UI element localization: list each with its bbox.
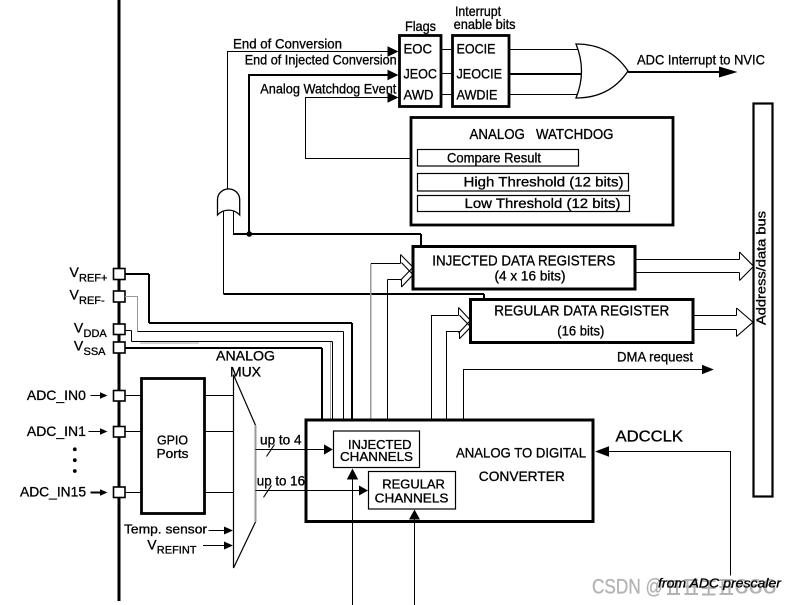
node: open block arrow regular register to bus (head) (737, 308, 754, 337)
wire: injected channels to injected data registers (black) (387, 280, 389, 431)
node: open block arrow injected registers to bus (shaft) (635, 252, 740, 281)
node: injected trigger arrowhead (347, 469, 358, 480)
wire: VREF- supply (gray stub) (125, 297, 138, 332)
svg-text:V: V (147, 537, 157, 553)
block: ANALOG WATCHDOG box (411, 118, 673, 226)
svg-text:End of Injected Conversion: End of Injected Conversion (245, 52, 397, 68)
svg-text:CHANNELS: CHANNELS (340, 449, 413, 464)
node: open arrowheads into regular data register (459, 308, 471, 339)
wire: gray artifact beside VDDA (140, 342, 331, 420)
wire: injected channels to injected data registers (gray) (370, 264, 372, 431)
svg-text:REF-: REF- (79, 295, 105, 307)
svg-text:ANALOG: ANALOG (216, 348, 275, 364)
pin: VDDA (114, 324, 126, 335)
svg-text:up to 16: up to 16 (257, 472, 305, 488)
wire: connectors flags to enable bits (441, 50, 453, 95)
node: open arrow shafts into regular data register (459, 308, 460, 339)
node: temp sensor arrowhead (224, 527, 233, 535)
svg-text:REF+: REF+ (79, 273, 107, 285)
svg-text:AWD: AWD (404, 87, 434, 103)
wire: ADC_IN0 arrow line (91, 395, 102, 397)
pin: VREF- (114, 291, 126, 302)
node: open arrow shafts into injected data registers (371, 255, 402, 288)
node: open arrowheads into injected data registers (401, 255, 414, 288)
bus: Address/data bus bar (754, 104, 773, 497)
svg-text:V: V (74, 338, 84, 354)
svg-text:ADC Interrupt to NVIC: ADC Interrupt to NVIC (637, 52, 765, 68)
svg-text:ANALOG WATCHDOG: ANALOG WATCHDOG (470, 127, 614, 143)
block: analog MUX trapezoid (234, 375, 256, 568)
svg-text:EOCIE: EOCIE (457, 41, 496, 57)
svg-text:End of Conversion: End of Conversion (233, 36, 342, 52)
node: up to 16 slash (264, 485, 272, 497)
node: EOC arrowhead into flags (388, 46, 399, 56)
svg-text:(4 x 16 bits): (4 x 16 bits) (495, 269, 566, 284)
node: up to 4 arrowhead (324, 444, 333, 454)
block: Compare Result (418, 150, 579, 167)
svg-text:ANALOG TO DIGITAL: ANALOG TO DIGITAL (456, 445, 586, 461)
svg-text:REFINT: REFINT (157, 545, 197, 557)
wire: pins to GPIO box (125, 396, 142, 493)
wire: end of regular conversion to regular data register (224, 294, 485, 299)
wire: End of Conversion (228, 52, 389, 189)
node: open block arrow regular register to bus (shaft) (693, 308, 737, 337)
node: regular trigger arrowhead (409, 510, 420, 520)
svg-text:REGULAR DATA REGISTER: REGULAR DATA REGISTER (494, 304, 669, 320)
node: open block arrow injected registers to bus (head) (740, 252, 754, 281)
svg-text:EOC: EOC (404, 41, 433, 57)
svg-text:DDA: DDA (84, 328, 108, 340)
svg-text:MUX: MUX (230, 364, 262, 380)
node: JEOC arrowhead into flags (388, 70, 399, 80)
wire: OR gate input from JEOC branch (233, 210, 235, 234)
node: DMA arrowhead (702, 365, 714, 375)
wire: regular trigger from bottom (414, 519, 416, 605)
svg-text:ADC_IN0: ADC_IN0 (27, 387, 86, 403)
wire: DMA request (464, 370, 704, 420)
wire: injected trigger from bottom (352, 479, 354, 605)
wire: OR gate input from regular conversion (223, 211, 225, 295)
node: ADC_IN15 arrowhead (100, 489, 108, 495)
wire: up to 16 into regular channels (256, 490, 361, 492)
svg-text:JEOC: JEOC (404, 66, 438, 82)
pin: ADC_IN15 (114, 487, 126, 498)
wire: GPIO to analog mux (205, 396, 234, 493)
svg-text:ADCCLK: ADCCLK (616, 429, 684, 446)
pin: ADC_IN0 (114, 391, 126, 402)
block: GPIO Ports (142, 379, 205, 514)
svg-text:V: V (74, 320, 84, 336)
block: INJECTED DATA REGISTERS (413, 247, 635, 290)
wire: regular channels to regular data register (right) (447, 332, 460, 472)
svg-text:CONVERTER: CONVERTER (479, 468, 565, 484)
svg-text:REGULAR: REGULAR (382, 477, 445, 492)
op-amp: small OR gate combining end-of-conversion signals (218, 189, 240, 215)
node: up to 4 slash (267, 445, 275, 457)
block: Flags box (400, 36, 442, 107)
wire: ADCCLK from prescaler (608, 452, 731, 576)
node: vertical ellipsis dots (73, 447, 77, 451)
svg-text:DMA request: DMA request (617, 349, 693, 365)
pin: VSSA (114, 342, 126, 353)
pin: ADC_IN1 (114, 427, 126, 438)
svg-text:Low Threshold (12 bits): Low Threshold (12 bits) (465, 195, 621, 211)
pin: VREF+ (114, 269, 126, 280)
wire: VREF- supply (138, 332, 344, 420)
text: CSDN watermark (592, 575, 777, 599)
block: High Threshold (12 bits) (418, 174, 629, 192)
wire: JEOC branch to injected data registers (233, 234, 421, 246)
wire: enable bits to interrupt OR gate (509, 50, 590, 95)
svg-text:Address/data bus: Address/data bus (755, 211, 769, 325)
wire: End of Injected Conversion (thick) (249, 75, 389, 234)
wire: VREF+ supply (thick) (125, 274, 352, 420)
block: Interrupt enable bits box (453, 36, 510, 107)
wire: regular channels to regular data register (left) (432, 316, 459, 472)
svg-text:AWDIE: AWDIE (457, 87, 498, 103)
wire: analog MUX right edge (gray) (255, 425, 257, 522)
wire: VREFINT arrow line (203, 545, 225, 547)
svg-text:Compare Result: Compare Result (447, 150, 541, 166)
node: NVIC arrowhead (719, 67, 738, 78)
svg-text:CSDN @: CSDN @ (592, 575, 663, 599)
svg-text:ADC_IN15: ADC_IN15 (20, 484, 86, 500)
svg-text:enable bits: enable bits (454, 16, 516, 32)
svg-text:CHANNELS: CHANNELS (375, 491, 449, 506)
node: VREFINT arrowhead (224, 542, 233, 550)
wire: VSSA supply (thick) (125, 348, 322, 420)
wire: up to 4 into injected channels (256, 449, 326, 451)
block: ANALOG TO DIGITAL CONVERTER (306, 420, 593, 522)
svg-text:High Threshold (12 bits): High Threshold (12 bits) (464, 174, 624, 190)
svg-text:INJECTED DATA REGISTERS: INJECTED DATA REGISTERS (432, 254, 615, 270)
block: Low Threshold (12 bits) (418, 196, 630, 212)
wire: VDDA supply (125, 331, 333, 420)
node: ADC_IN0 arrowhead (100, 392, 108, 398)
svg-text:from ADC prescaler: from ADC prescaler (658, 577, 782, 591)
wire: temp sensor arrow line (209, 530, 225, 532)
block: REGULAR CHANNELS (369, 472, 456, 510)
wire: Analog Watchdog Event (306, 98, 418, 159)
svg-text:Temp. sensor: Temp. sensor (124, 522, 208, 537)
svg-text:V: V (70, 264, 80, 280)
wire: ADC interrupt output (628, 71, 727, 73)
op-amp: ADC interrupt OR gate (576, 44, 628, 98)
node: ADC_IN1 arrowhead (100, 428, 108, 434)
wire: left supply rail (118, 0, 121, 601)
svg-text:(16 bits): (16 bits) (557, 324, 604, 339)
wire: ADC_IN15 arrow line (91, 492, 102, 494)
svg-text:Flags: Flags (405, 18, 436, 34)
node: up to 16 arrowhead (359, 486, 368, 496)
svg-text:SSA: SSA (84, 346, 107, 358)
svg-text:ADC_IN1: ADC_IN1 (27, 423, 86, 439)
svg-text:up to 4: up to 4 (260, 432, 302, 448)
svg-text:Analog Watchdog Event: Analog Watchdog Event (260, 81, 396, 97)
wire: ADC_IN1 arrow line (89, 431, 102, 433)
svg-text:Ports: Ports (157, 446, 190, 461)
block: REGULAR DATA REGISTER (471, 300, 694, 343)
block: INJECTED CHANNELS (334, 431, 420, 468)
svg-text:V: V (70, 287, 80, 303)
node: junction dot on JEOC branch (247, 231, 253, 237)
svg-text:JEOCIE: JEOCIE (457, 66, 503, 82)
node: ADCCLK arrowhead into converter (595, 446, 609, 457)
node: AWD arrowhead into flags (388, 92, 399, 102)
